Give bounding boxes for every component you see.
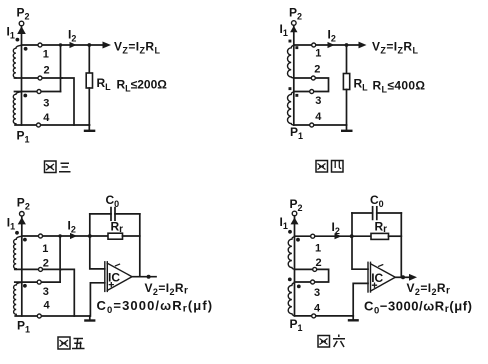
node polarity dot primary B — [288, 278, 292, 282]
wire non-inverting input to ground bus — [353, 283, 368, 316]
wire primary P2-P1 — [293, 25, 295, 125]
caption fig6 "tu liu" — [318, 335, 345, 348]
svg-text:4: 4 — [44, 300, 51, 312]
terminal 3 — [311, 280, 315, 284]
terminal 2 — [311, 76, 315, 80]
wire tap 1 — [294, 44, 360, 46]
node polarity dot secondary B — [297, 285, 301, 289]
wire primary P2-P1 — [21, 26, 23, 125]
junction node A — [59, 43, 62, 46]
terminal P2 — [19, 21, 24, 26]
wire tap 1 — [22, 44, 104, 46]
wire feedback left vertical to inverting input — [352, 213, 368, 269]
wire RL bottom lead — [88, 88, 90, 125]
resistor Rr — [371, 233, 389, 239]
svg-text:2: 2 — [316, 257, 322, 269]
svg-text:2: 2 — [43, 258, 49, 270]
arrow I1 — [18, 217, 26, 224]
node polarity square secondary A — [295, 46, 298, 49]
svg-text:RL≤200Ω: RL≤200Ω — [117, 78, 168, 94]
wire non-inverting input to ground bus — [90, 283, 104, 316]
terminal P2 — [292, 21, 297, 26]
node polarity dot primary — [16, 38, 20, 42]
terminal 2 — [39, 267, 43, 271]
terminal 4 — [37, 123, 41, 127]
svg-text:IC: IC — [108, 271, 120, 285]
svg-text:3: 3 — [43, 286, 49, 298]
capacitor C0 feedback wire left — [352, 212, 373, 214]
caption fig4 "tu si" — [316, 161, 343, 173]
terminal 4 — [310, 123, 314, 127]
wire primary P2-P1 — [294, 216, 296, 316]
op-amp U1 IC — [105, 262, 132, 292]
terminal 3 — [310, 90, 314, 94]
terminal P2 — [20, 212, 25, 217]
svg-text:3: 3 — [314, 287, 320, 299]
junction node output — [401, 275, 405, 279]
arrow I2 — [70, 233, 77, 239]
svg-text:1: 1 — [42, 243, 48, 255]
svg-text:3: 3 — [43, 98, 49, 110]
junction node inverting input — [88, 234, 92, 238]
svg-text:4: 4 — [314, 303, 321, 315]
svg-text:IC: IC — [371, 271, 383, 285]
arrow I1 — [17, 26, 26, 34]
node polarity dot secondary winding A — [23, 238, 27, 242]
winding B (secondary 3-4) — [288, 283, 294, 316]
svg-text:1: 1 — [315, 48, 321, 60]
arrow I2 — [335, 233, 342, 239]
resistor RL — [86, 73, 92, 88]
capacitor C0 — [110, 208, 112, 221]
wire tap 3 — [15, 91, 61, 93]
node polarity square primary A — [289, 40, 292, 43]
svg-text:4: 4 — [43, 112, 50, 124]
terminal 4 — [37, 314, 41, 318]
terminal 1 — [311, 234, 315, 238]
svg-text:1: 1 — [315, 243, 321, 255]
capacitor C0 feedback wire left — [90, 213, 111, 215]
node polarity square secondary B — [295, 94, 298, 97]
op-amp U2 IC — [368, 262, 395, 292]
node polarity dot primary — [15, 231, 19, 235]
wire op-amp output — [395, 276, 409, 278]
capacitor C0 feedback wire right — [377, 212, 402, 214]
arrow V2 output — [409, 274, 417, 281]
wire tap 4 bottom — [294, 124, 347, 126]
terminal 4 — [312, 314, 316, 318]
wire tap 4 bottom — [15, 124, 90, 126]
capacitor C0 — [372, 207, 374, 220]
svg-text:V2=I2Rr: V2=I2Rr — [407, 281, 451, 297]
svg-text:4: 4 — [315, 111, 322, 123]
resistor Rr — [108, 233, 123, 239]
terminal 2 — [313, 267, 317, 271]
wire tap 2 / series link to tap 3 — [295, 269, 329, 282]
svg-text:1: 1 — [43, 49, 49, 61]
wire tap 2 — [15, 268, 62, 270]
svg-text:VZ=IZRL: VZ=IZRL — [372, 40, 418, 56]
wire tap 3 — [15, 281, 60, 283]
ground — [346, 125, 348, 131]
capacitor C0 feedback wire right — [115, 213, 140, 215]
caption fig5 "tu wu" — [58, 337, 85, 349]
arrow I1 — [290, 26, 297, 32]
svg-text:VZ=IZRL: VZ=IZRL — [114, 40, 160, 56]
wire RL bottom lead — [346, 90, 348, 126]
winding B (secondary 3-4) — [14, 282, 22, 315]
wire primary P2-P1 — [21, 216, 23, 316]
arrow I1 — [291, 217, 299, 224]
svg-text:3: 3 — [315, 95, 321, 107]
winding A (secondary 1-2) — [288, 237, 294, 270]
node polarity dot secondary winding B — [23, 94, 27, 98]
winding A (secondary 1-2) — [288, 45, 294, 78]
wire feedback left vertical to inverting input — [90, 214, 105, 269]
ground — [89, 316, 91, 320]
arrow VZ output — [359, 42, 367, 49]
wire RL top lead — [88, 45, 90, 73]
ground — [352, 316, 354, 320]
wire feedback right vertical to output — [400, 213, 402, 277]
terminal P2 — [292, 211, 297, 216]
terminal 1 — [38, 43, 42, 47]
winding A (secondary 1-2) — [14, 236, 22, 269]
junction node RL top — [345, 43, 349, 47]
arrow VZ output — [103, 42, 112, 49]
wire node A down to tap 2 — [60, 45, 62, 92]
winding B (secondary 3-4) — [288, 92, 294, 125]
junction node output — [147, 275, 151, 279]
node polarity square primary B — [289, 87, 292, 90]
wire tap2 to down bus — [62, 269, 75, 316]
node polarity dot primary A — [288, 230, 292, 234]
junction node RL top — [87, 43, 91, 47]
caption fig3 "tu san" — [45, 161, 71, 173]
wire tap 4 bottom — [295, 315, 354, 317]
wire tap 2 / series link to tap 3 — [294, 78, 329, 92]
wire node A down to tap 2 and tap 3 — [59, 236, 61, 282]
junction node A — [58, 234, 61, 237]
svg-text:V2=I2Rr: V2=I2Rr — [145, 281, 189, 297]
wire Rr to output node — [123, 235, 140, 237]
wire RL top lead — [346, 45, 348, 74]
node polarity dot secondary winding B — [23, 284, 27, 288]
wire tap 1 / Rr feedback line — [22, 235, 108, 237]
svg-text:RL≤400Ω: RL≤400Ω — [373, 79, 426, 95]
arrow I2 — [328, 42, 335, 48]
wire tap2 to down bus — [62, 78, 74, 125]
winding A (secondary 1-2) — [13, 45, 21, 78]
winding B (secondary 3-4) — [13, 92, 21, 125]
wire Rr to output node — [389, 235, 402, 237]
terminal 1 — [39, 234, 43, 238]
wire op-amp output — [132, 276, 156, 278]
terminal 3 — [37, 90, 41, 94]
svg-text:2: 2 — [314, 64, 320, 76]
wire tap 2 — [15, 77, 63, 79]
svg-text:2: 2 — [44, 65, 50, 77]
wire tap 1 / Rr feedback line — [295, 235, 372, 237]
node polarity dot secondary A — [296, 238, 300, 242]
ground — [88, 125, 90, 131]
node polarity dot secondary winding A — [24, 47, 28, 51]
resistor RL — [343, 74, 349, 90]
wire feedback right vertical to output — [139, 214, 141, 277]
arrow I2 — [70, 42, 77, 48]
terminal 2 — [38, 76, 42, 80]
terminal 3 — [37, 280, 41, 284]
junction node inverting input — [350, 234, 354, 238]
wire tap 4 bottom — [15, 315, 90, 317]
terminal 1 — [312, 43, 316, 47]
